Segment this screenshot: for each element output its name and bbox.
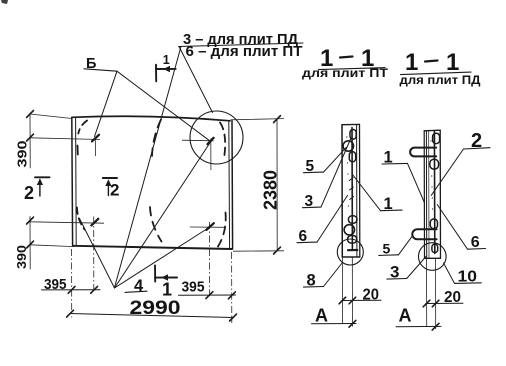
dim 20 PD [426,302,463,304]
title 1-1 for PD [400,49,481,87]
PD top protruding loop [410,148,436,157]
svg-text:для плит ПТ: для плит ПТ [302,68,388,80]
section PT body [342,124,360,257]
label 2 (PD) [431,130,490,195]
note leader to fan vertex [115,47,182,288]
PT top hook loop [343,141,353,151]
svg-text:для плит ПД: для плит ПД [400,75,481,87]
PD top pill [433,133,440,143]
svg-text:2380: 2380 [260,170,281,210]
scan blob top-left [1,0,8,4]
svg-text:1: 1 [405,49,418,76]
svg-text:2: 2 [24,183,34,203]
detail circle 8 [337,239,363,265]
note shelf line [179,43,304,47]
PT bottom hook loop [344,225,354,235]
fan leader to bottom-right anchor [115,229,208,289]
dim 395 left [42,289,101,291]
PT bottom bar [348,249,357,251]
dim 395 right [179,294,236,296]
hidden contour dashed arc top-left [78,121,87,134]
label 5 (PT) [304,147,347,175]
plate plan outline [72,116,233,249]
PD bottom protruding loop [412,229,436,239]
label 6 (PD) [437,205,485,252]
section PD body [424,130,440,258]
PD pill bottom [432,244,438,252]
note leader to circle [179,47,213,113]
PT bottom hook pill 2 [348,236,357,244]
PT bottom hook pill 1 [348,216,357,223]
hidden contour dashed arc bottom-center [150,207,162,242]
label 5 (PD) [379,235,413,256]
fan leader to left hidden loop [80,219,115,289]
left dimension line verticals [29,113,31,168]
section marker 2 inner [103,178,120,200]
hidden contour dashed arc top-center [152,120,161,157]
left dim extension top [30,114,72,119]
label 3 (PD) [387,257,426,282]
dim A PD [396,325,441,327]
label 1 lower (points to PT bar) [353,175,403,214]
dim 2380 vertical [276,119,278,251]
PD extension verticals below [426,258,428,326]
PD bottom pill above loop [430,219,437,229]
label 1 upper (points to PD bar) [382,149,425,204]
detail circle 10 [419,243,447,271]
fan leader to circled anchor [115,144,210,289]
svg-text:395: 395 [44,276,67,293]
dim 2990 [70,314,233,318]
PD concrete dots [430,140,433,209]
detail circle Б [190,111,243,164]
svg-text:1: 1 [163,53,170,67]
svg-text:2990: 2990 [130,298,181,319]
section marker 1 bottom [155,266,177,300]
anchor mark top-left [30,138,100,140]
svg-text:А: А [315,305,328,325]
PT extension verticals below [341,257,343,324]
svg-text:А: А [399,305,412,325]
svg-text:390: 390 [16,140,30,167]
left dim extension bottom [30,245,74,247]
dim A PT [312,323,357,325]
title 1-1 for PT [302,45,388,80]
section marker 1 top [156,53,176,81]
anchor mark bottom-right [190,226,225,228]
dim 20 PT [342,299,381,301]
label 10 (PD) [444,263,482,286]
label 8 (PT) [304,263,343,290]
svg-text:2: 2 [110,181,119,200]
left dim ticks [27,111,34,118]
hidden contour dashed arc bottom-right [218,213,226,247]
svg-text:1: 1 [162,280,172,300]
label Б with leaders [84,56,209,140]
PT concrete dots [346,136,349,206]
section marker 2 left [24,177,50,203]
svg-text:390: 390 [15,245,29,269]
svg-text:20: 20 [444,289,461,306]
svg-text:1: 1 [446,49,459,76]
anchor mark bottom-left [30,222,104,223]
PT top hook pill 2 [349,152,355,162]
label 3 (PT) [303,139,351,211]
PT bar ticks [349,178,353,200]
hidden contour dashed arc bottom-left [77,208,85,230]
PD pill below top loop [430,159,439,169]
anchor mark in circle [182,139,214,142]
hidden contour dashed arc top-right [220,123,225,158]
PT top hook pill 1 [350,130,356,140]
svg-text:20: 20 [363,287,380,304]
label 6 (PT) [297,196,348,246]
svg-text:5: 5 [383,241,391,257]
svg-text:395: 395 [182,279,205,296]
